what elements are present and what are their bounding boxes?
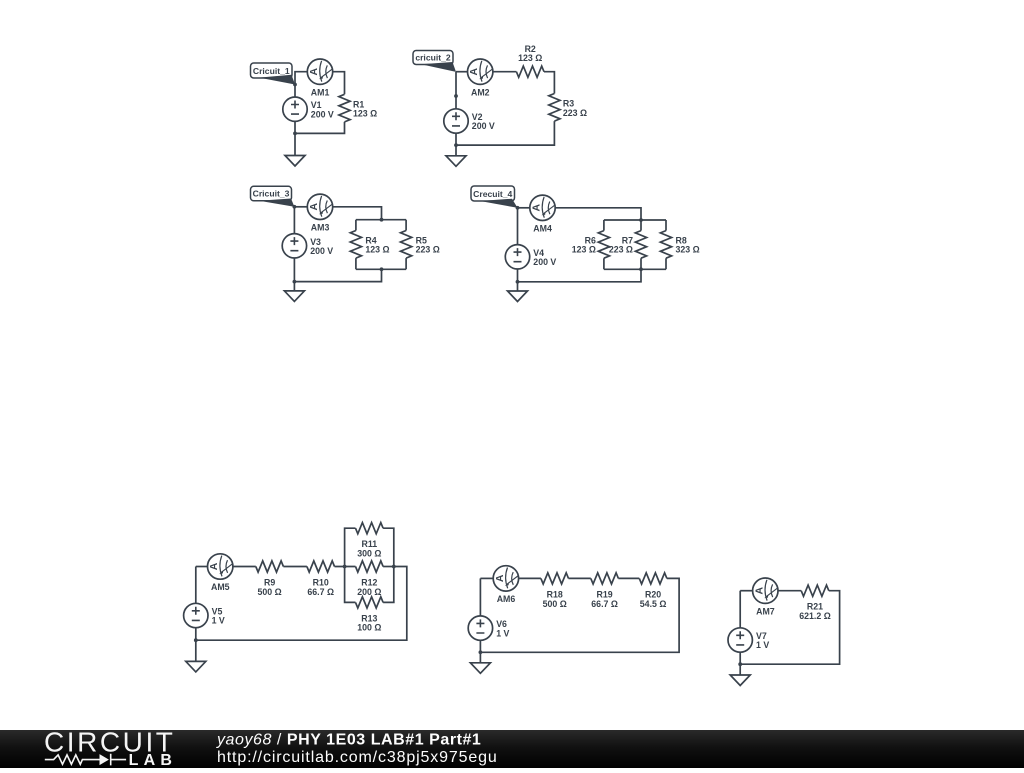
- ground: [186, 661, 206, 672]
- wire source bottom: [293, 258, 295, 282]
- wire left vertical: [479, 578, 481, 616]
- ammeter AM5: [208, 554, 233, 579]
- wire left vertical: [739, 591, 741, 628]
- ground: [508, 291, 528, 302]
- wire left vertical: [195, 567, 197, 604]
- svg-text:LAB: LAB: [129, 752, 177, 768]
- wire ammeter to R9: [233, 566, 256, 568]
- node junction: [194, 638, 198, 642]
- ammeter AM6: [493, 566, 518, 591]
- node junction: [380, 218, 384, 222]
- wire left vertical: [293, 207, 295, 234]
- wire ammeter to R1: [333, 72, 345, 95]
- wire top bus: [356, 219, 406, 221]
- voltage source V2 200 V: [444, 109, 468, 133]
- CircuitLab logo diode triangle: [100, 754, 109, 765]
- wire source top: [294, 85, 296, 98]
- voltage source V6 1 V: [468, 616, 492, 640]
- wire left to ammeter: [196, 566, 208, 568]
- wire source bottom: [195, 628, 197, 641]
- resistor R4 123 &#937;: [350, 231, 361, 259]
- resistor R19 66.7 &#937;: [591, 573, 619, 584]
- ground: [446, 156, 466, 167]
- wire bank to bottom: [518, 269, 642, 282]
- wire left to ammeter: [740, 590, 752, 592]
- ammeter AM4: [530, 195, 555, 220]
- wire ground stem: [479, 652, 481, 663]
- wire R1 bottom: [295, 122, 345, 133]
- ground: [284, 291, 304, 302]
- ammeter AM7: [753, 578, 778, 603]
- node junction: [738, 662, 742, 666]
- resistor R20 54.5 &#937;: [639, 573, 667, 584]
- node junction: [639, 267, 643, 271]
- wire ground stem: [294, 133, 296, 155]
- node junction: [293, 280, 297, 284]
- node junction: [293, 83, 297, 87]
- node junction: [516, 206, 520, 210]
- resistor R10 66.7 &#937;: [307, 561, 335, 572]
- CircuitLab logo resistor-diode glyph: [45, 754, 126, 766]
- net label cricuit_2: [413, 51, 456, 72]
- wire flag to ammeter: [456, 71, 467, 73]
- resistor R9 500 &#937;: [256, 561, 284, 572]
- wire left to ammeter: [480, 577, 493, 579]
- resistor R1 123 &#937;: [339, 94, 350, 122]
- wire right return: [196, 567, 407, 641]
- wire right return: [480, 578, 679, 652]
- resistor R13 100 &#937;: [356, 597, 384, 608]
- wire R5 leads: [405, 220, 407, 270]
- wire R4 leads: [355, 220, 357, 270]
- wire left vertical: [455, 72, 457, 109]
- wire source bottom: [294, 121, 296, 133]
- svg-text:http://circuitlab.com/c38pj5x9: http://circuitlab.com/c38pj5x975egu: [217, 749, 498, 766]
- wire R19 to R20: [618, 577, 639, 579]
- wire ground stem: [195, 640, 197, 661]
- wire bottom bus: [356, 268, 406, 270]
- wire R9 to R10: [283, 566, 307, 568]
- resistor R11 300 &#937;: [356, 523, 384, 534]
- wire top bus: [604, 219, 666, 221]
- resistor R5 223 &#937;: [401, 231, 412, 259]
- ammeter AM1: [307, 59, 332, 84]
- wire R3 to bottom: [456, 121, 554, 145]
- resistor R3 223 &#937;: [549, 94, 560, 122]
- wire ammeter to R18: [519, 577, 541, 579]
- wire R11 branch: [345, 528, 394, 566]
- node junction: [380, 267, 384, 271]
- wire R7 leads: [640, 220, 642, 269]
- resistor R21 621.2 &#937;: [801, 585, 829, 596]
- ground: [470, 663, 490, 674]
- resistor R6 123 &#937;: [598, 231, 609, 259]
- wire ground stem: [293, 282, 295, 291]
- node junction: [639, 218, 643, 222]
- wire flag to ammeter: [294, 206, 307, 208]
- node junction: [343, 565, 347, 569]
- wire flag to ammeter: [518, 207, 530, 209]
- node junction: [516, 280, 520, 284]
- voltage source V5 1 V: [184, 603, 208, 627]
- wire ground stem: [455, 145, 457, 156]
- ground: [285, 156, 305, 167]
- wire R6 leads: [603, 220, 605, 269]
- voltage source V1 200 V: [283, 97, 307, 121]
- node junction: [293, 205, 297, 209]
- resistor R8 323 &#937;: [660, 231, 671, 259]
- wire ammeter to bank: [333, 207, 382, 220]
- node junction: [454, 94, 458, 98]
- voltage source V3 200 V: [282, 234, 306, 258]
- wire bottom bus: [604, 268, 666, 270]
- wire R10 to node: [335, 566, 356, 568]
- voltage source V4 200 V: [505, 245, 529, 269]
- wire ammeter to R21: [778, 590, 801, 592]
- wire left vertical: [517, 208, 519, 245]
- wire R18 to R19: [569, 577, 591, 579]
- wire ground stem: [517, 282, 519, 291]
- wire right return: [740, 591, 839, 665]
- node junction: [454, 143, 458, 147]
- ammeter AM2: [468, 59, 493, 84]
- net label Cricuit_3: [251, 186, 295, 207]
- node junction: [479, 650, 483, 654]
- node junction: [392, 565, 396, 569]
- wire R12 right lead: [383, 566, 394, 568]
- resistor R2 123 &#937;: [516, 66, 544, 77]
- net label Crecuit_4: [471, 186, 518, 208]
- wire source bottom: [455, 133, 457, 145]
- wire R13 branch: [345, 567, 394, 603]
- wire R2 to R3: [544, 72, 554, 94]
- node junction: [293, 132, 297, 136]
- resistor R12 200 &#937;: [356, 561, 384, 572]
- wire source bottom: [479, 640, 481, 652]
- wire source bottom: [517, 269, 519, 282]
- wire ground stem: [739, 664, 741, 675]
- wire ammeter to bank: [555, 208, 641, 220]
- ammeter AM3: [307, 194, 332, 219]
- svg-text:yaoy68 / PHY 1E03 LAB#1 Part#1: yaoy68 / PHY 1E03 LAB#1 Part#1: [216, 731, 481, 748]
- wire ammeter to R2: [493, 71, 516, 73]
- wire top: [295, 72, 307, 85]
- wire source bottom: [739, 652, 741, 664]
- resistor R7 223 &#937;: [635, 231, 646, 259]
- wire R8 leads: [665, 220, 667, 269]
- net label Cricuit_1: [251, 63, 296, 85]
- wire bank to bottom: [294, 269, 381, 281]
- voltage source V7 1 V: [728, 628, 752, 652]
- footer bar: [0, 730, 1024, 769]
- ground: [730, 675, 750, 686]
- resistor R18 500 &#937;: [541, 573, 569, 584]
